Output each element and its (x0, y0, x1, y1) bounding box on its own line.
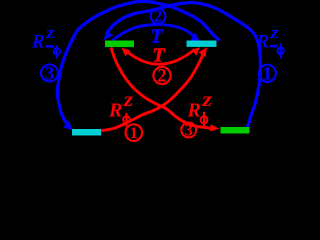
label: red R^z_phi (left) (108, 90, 133, 122)
svg-text:3: 3 (45, 63, 55, 84)
svg-text:R: R (108, 99, 122, 121)
label: blue circled 3 (left) (41, 65, 58, 82)
level bar: top green (105, 41, 134, 48)
wire: red arc step 1 (bottom cyan bar up to top cyan bar) (101, 53, 204, 131)
arrowhead red 2 into top green bar bottom (122, 48, 131, 57)
arrowhead red 2 into top cyan bar bottom (191, 47, 200, 55)
wire: big right blue arc (step 1, bottom green bar over top to top green bar) (106, 3, 260, 128)
label: red circled 1 (126, 124, 143, 141)
wire: red arc step 3 (top green bar down to bottom green bar) (111, 48, 210, 129)
arrowhead red 1 into top cyan bar (199, 47, 208, 57)
arrowhead into top cyan bar (191, 33, 201, 42)
svg-text:1: 1 (130, 125, 138, 142)
svg-text:R: R (31, 32, 45, 53)
svg-text:3: 3 (185, 120, 193, 139)
svg-text:1: 1 (263, 64, 272, 84)
label: blue circled 2 (top) (151, 9, 166, 24)
label: blue circled 1 (right) (259, 65, 276, 82)
svg-text:z: z (201, 90, 212, 111)
arrowhead into top green bar (104, 30, 113, 40)
svg-text:T: T (153, 45, 166, 67)
svg-text:z: z (123, 90, 134, 111)
wire: big left blue arc (step 3, top cyan bar over top to bottom cyan bar) (57, 1, 219, 123)
svg-text:z: z (269, 23, 279, 42)
level bar: bottom green (221, 127, 250, 134)
wire: red arc step 2 (top cyan bar to top green bar, bulging down) (125, 50, 195, 65)
label: red circled 3 (181, 123, 196, 138)
arrowhead into bottom cyan bar (63, 121, 73, 131)
arrowhead red 3 into bottom green bar (210, 124, 220, 131)
label: blue R^z_-phi (left) (31, 23, 55, 52)
label: red circled 2 (153, 67, 170, 84)
level bar: bottom cyan (72, 129, 101, 136)
wire: inner blue arc step 2 (green bar to cyan bar) (113, 25, 194, 41)
svg-text:2: 2 (154, 7, 162, 26)
svg-text:R: R (187, 100, 201, 122)
svg-text:2: 2 (157, 67, 166, 87)
label: red R^z_phi (right) (187, 90, 213, 122)
level bar: top cyan (187, 41, 217, 47)
svg-text:R: R (256, 31, 270, 52)
label: blue R^z_-phi (right) (256, 23, 279, 52)
svg-text:z: z (45, 23, 55, 42)
